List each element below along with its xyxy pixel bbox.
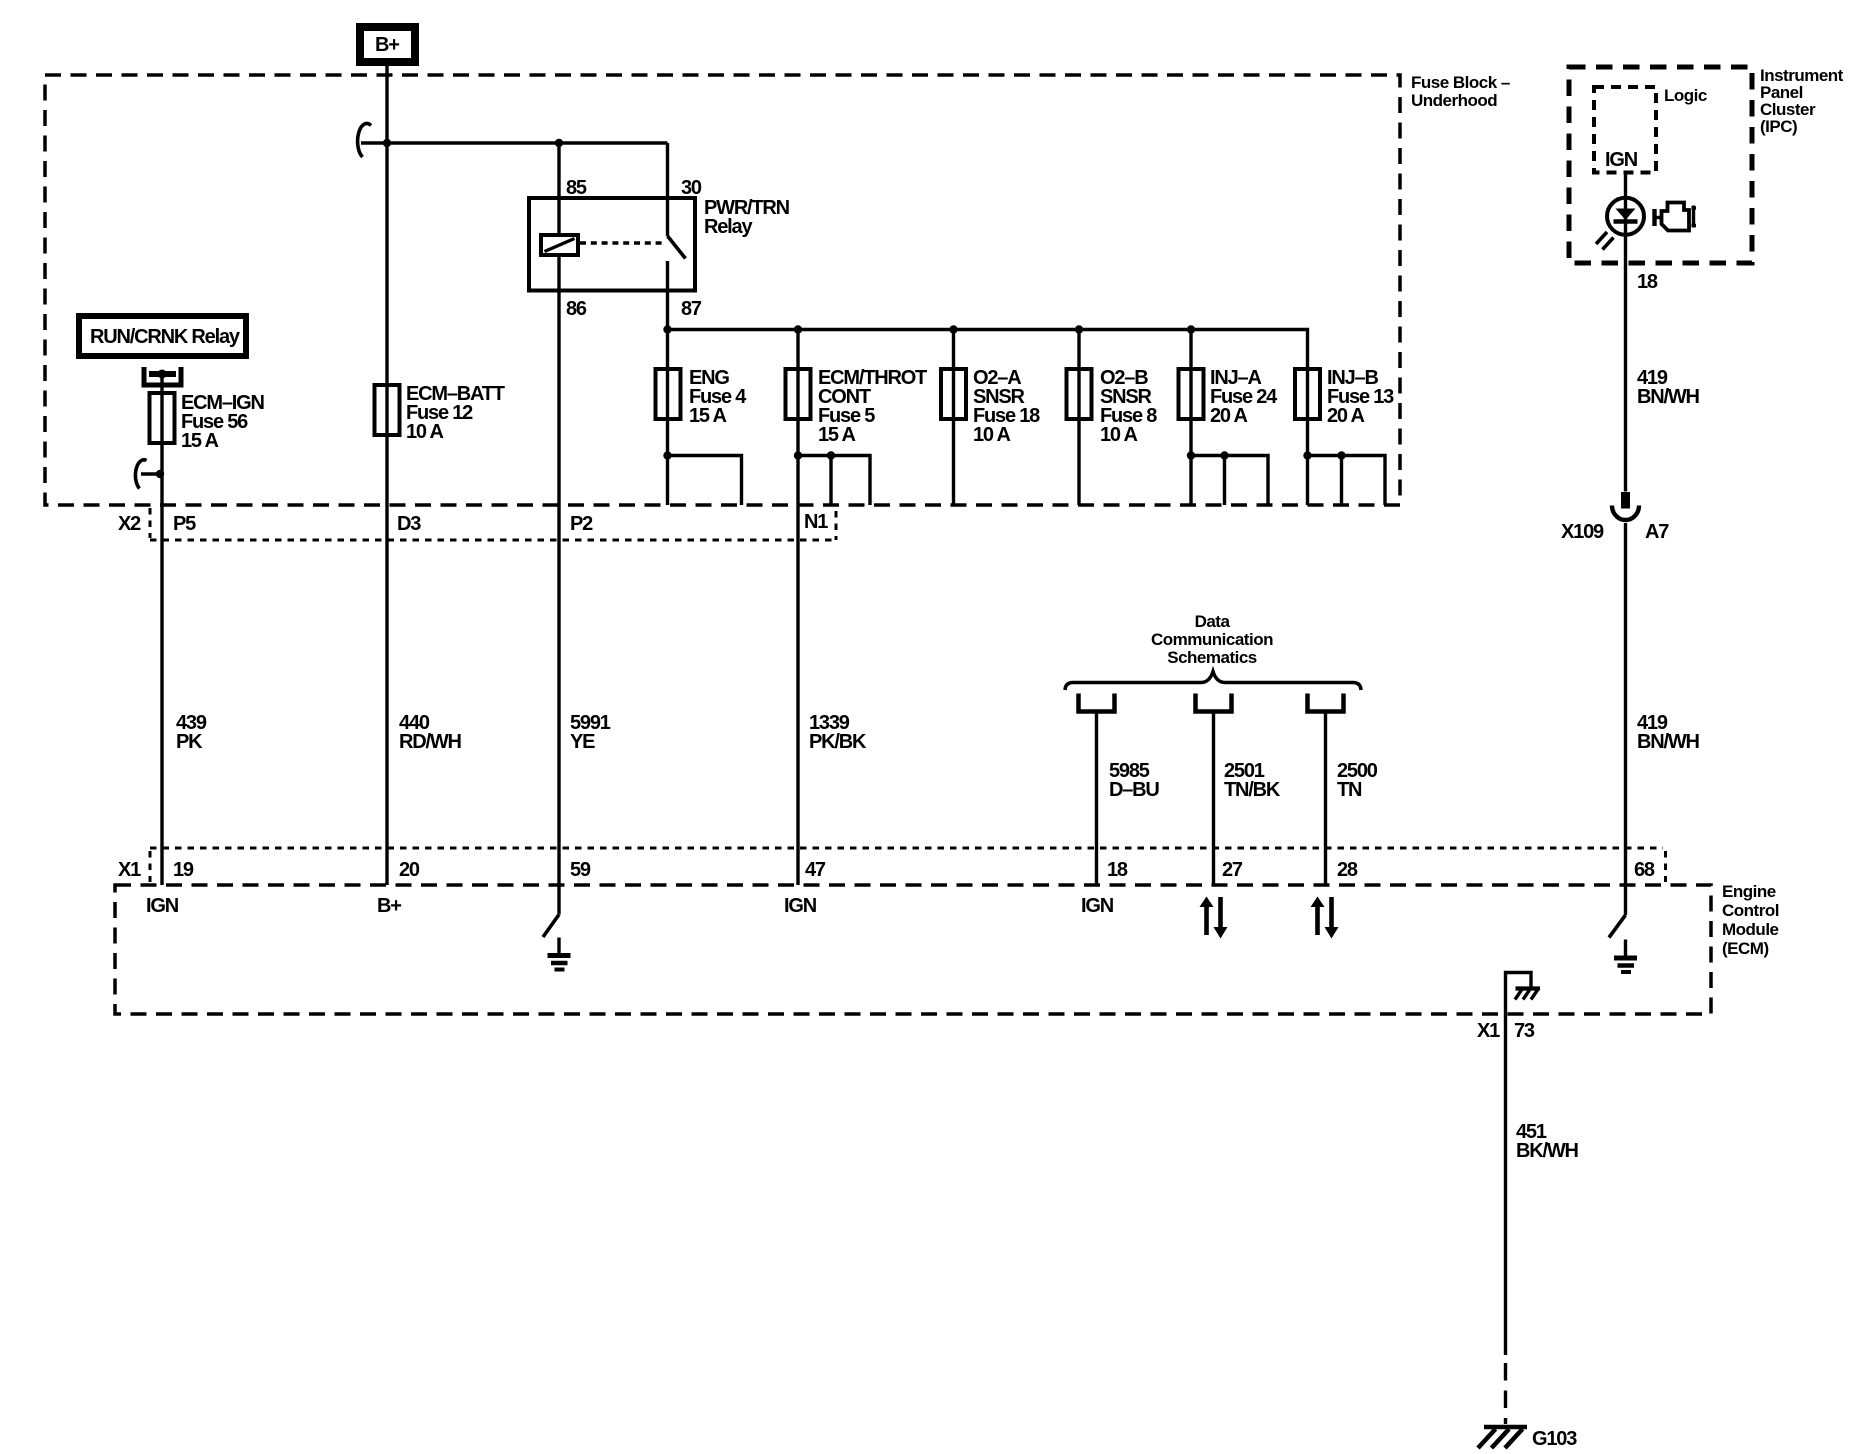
- connector terminal cup from RUN/CRNK relay: [144, 367, 181, 385]
- svg-text:85: 85: [566, 177, 587, 199]
- switch ECM driver pin 68: [1609, 915, 1626, 938]
- svg-text:87: 87: [681, 298, 702, 320]
- svg-text:Fuse Block –: Fuse Block –: [1411, 73, 1510, 92]
- wire 5985 D-BU: [1095, 712, 1098, 886]
- wire relay pin 30 drop: [666, 143, 669, 236]
- connector hook below fuse 56: [135, 460, 146, 489]
- wire relay pin 85 drop: [557, 143, 560, 236]
- fuse O2-A SNSR Fuse 18: [941, 369, 966, 419]
- svg-text:N1: N1: [804, 511, 828, 533]
- svg-text:X1: X1: [1477, 1020, 1500, 1042]
- connector row X1 dotted line: [150, 847, 1663, 850]
- svg-text:10 A: 10 A: [973, 424, 1010, 446]
- svg-text:P5: P5: [173, 513, 196, 535]
- switch ECM driver pin 59: [557, 885, 560, 915]
- svg-text:Underhood: Underhood: [1411, 91, 1497, 110]
- wire O2-A fuse output: [952, 419, 955, 505]
- svg-text:IGN: IGN: [146, 895, 179, 917]
- connector hook top feed: [358, 123, 371, 157]
- wire O2-B fuse output: [1077, 419, 1080, 505]
- svg-text:20: 20: [399, 859, 420, 881]
- svg-text:D3: D3: [397, 513, 421, 535]
- connector row X2 dotted line: [150, 539, 837, 542]
- indicator lamp MIL: [1596, 198, 1644, 250]
- fuse ENG Fuse 4: [656, 369, 681, 419]
- RUN/CRNK Relay label box: [76, 313, 249, 359]
- relay contact stub 87: [666, 261, 669, 291]
- svg-text:BN/WH: BN/WH: [1637, 731, 1700, 753]
- fuse bus horizontal: [668, 330, 1308, 370]
- svg-text:IGN: IGN: [1081, 895, 1114, 917]
- ground ECM pin 68: [1614, 940, 1637, 973]
- relay coil-contact dashed link: [580, 241, 664, 244]
- relay coil: [541, 235, 578, 255]
- engine control module box: [115, 885, 1711, 1014]
- wire INJ-B fuse output loop: [1306, 419, 1309, 505]
- svg-text:15 A: 15 A: [818, 424, 855, 446]
- svg-text:73: 73: [1514, 1020, 1535, 1042]
- wire IGN to indicator: [1624, 173, 1627, 492]
- svg-text:(IPC): (IPC): [1760, 117, 1797, 136]
- svg-text:10 A: 10 A: [406, 421, 443, 443]
- svg-text:30: 30: [681, 177, 702, 199]
- svg-text:28: 28: [1337, 859, 1358, 881]
- wire 2501 TN/BK: [1212, 712, 1215, 886]
- svg-text:IGN: IGN: [1605, 149, 1638, 171]
- battery feed B+: [356, 23, 419, 66]
- connector N1 separator: [835, 511, 838, 540]
- svg-text:59: 59: [570, 859, 591, 881]
- svg-text:PK: PK: [176, 731, 203, 753]
- svg-text:(ECM): (ECM): [1722, 939, 1769, 958]
- svg-text:D–BU: D–BU: [1109, 779, 1159, 801]
- wire INJ-A fuse output loop: [1189, 419, 1192, 505]
- svg-text:TN: TN: [1337, 779, 1362, 801]
- svg-text:Engine: Engine: [1722, 882, 1776, 901]
- svg-text:20 A: 20 A: [1210, 405, 1247, 427]
- svg-text:X1: X1: [118, 859, 141, 881]
- svg-text:B+: B+: [375, 34, 399, 56]
- serial data arrows pin 28: [1311, 897, 1339, 939]
- wire ENG fuse output loop: [666, 419, 669, 505]
- inline connector X109: [1612, 492, 1639, 520]
- svg-text:Control: Control: [1722, 901, 1779, 920]
- svg-text:47: 47: [805, 859, 826, 881]
- svg-text:18: 18: [1107, 859, 1128, 881]
- connector X2 separator: [149, 508, 152, 538]
- node bus 87: [663, 325, 671, 333]
- svg-text:10 A: 10 A: [1100, 424, 1137, 446]
- svg-text:P2: P2: [570, 513, 593, 535]
- terminal bracket 2501: [1196, 694, 1232, 712]
- logic box: [1594, 87, 1656, 173]
- relay switch blade: [668, 236, 686, 259]
- svg-text:27: 27: [1222, 859, 1243, 881]
- instrument panel cluster box: [1569, 67, 1752, 263]
- ground G103: [1478, 1427, 1527, 1448]
- node bus o2-a: [949, 325, 957, 333]
- svg-text:15 A: 15 A: [181, 430, 218, 452]
- wire top feed horizontal: [361, 141, 668, 144]
- check engine icon: [1655, 203, 1697, 231]
- svg-text:PK/BK: PK/BK: [809, 731, 867, 753]
- wire 451 BK/WH: [1504, 1014, 1507, 1355]
- node junction coil feed: [555, 139, 563, 147]
- svg-text:20 A: 20 A: [1327, 405, 1364, 427]
- fuse ECM-BATT Fuse 12: [375, 385, 400, 435]
- terminal bracket 5985: [1079, 694, 1115, 712]
- node bus o2-b: [1075, 325, 1083, 333]
- svg-text:BN/WH: BN/WH: [1637, 386, 1700, 408]
- svg-text:Module: Module: [1722, 920, 1779, 939]
- svg-text:TN/BK: TN/BK: [1224, 779, 1281, 801]
- svg-text:15 A: 15 A: [689, 405, 726, 427]
- connector 68 separator: [1664, 851, 1667, 882]
- svg-text:Logic: Logic: [1664, 86, 1707, 105]
- wire 5991 coil low side pin 86: [557, 255, 560, 885]
- ground ECM pin 59: [548, 938, 571, 970]
- svg-text:X2: X2: [118, 513, 141, 535]
- wire ECM-IGN feed: [160, 374, 163, 885]
- fuse block underhood box: [45, 75, 1400, 505]
- node bus inj-a: [1187, 325, 1195, 333]
- svg-text:YE: YE: [570, 731, 595, 753]
- svg-text:RUN/CRNK Relay: RUN/CRNK Relay: [90, 326, 241, 348]
- fuse ECM/THROT CONT Fuse 5: [786, 369, 811, 419]
- fuse ECM-IGN Fuse 56: [150, 393, 175, 443]
- connector X1 separator: [149, 851, 152, 882]
- fuse INJ-A Fuse 24: [1179, 369, 1204, 419]
- brace data communication: [1065, 672, 1361, 691]
- svg-text:68: 68: [1634, 859, 1655, 881]
- svg-text:18: 18: [1637, 271, 1658, 293]
- node terminal junction: [158, 370, 167, 379]
- svg-text:BK/WH: BK/WH: [1516, 1140, 1579, 1162]
- relay PWR/TRN box: [529, 198, 695, 291]
- svg-text:X109: X109: [1561, 521, 1604, 543]
- svg-text:Schematics: Schematics: [1167, 648, 1257, 667]
- svg-text:19: 19: [173, 859, 194, 881]
- svg-text:RD/WH: RD/WH: [399, 731, 462, 753]
- svg-text:IGN: IGN: [784, 895, 817, 917]
- fuse O2-B SNSR Fuse 8: [1067, 369, 1092, 419]
- serial data arrows pin 27: [1200, 897, 1228, 939]
- node junction B+/feed: [383, 139, 391, 147]
- svg-text:Communication: Communication: [1151, 630, 1273, 649]
- wire B+ vertical 440: [385, 66, 388, 885]
- fuse INJ-B Fuse 13: [1295, 369, 1320, 419]
- svg-text:86: 86: [566, 298, 587, 320]
- wire 2500 TN: [1324, 712, 1327, 886]
- svg-text:A7: A7: [1645, 521, 1669, 543]
- svg-text:Relay: Relay: [704, 216, 753, 238]
- svg-text:Data: Data: [1195, 612, 1231, 631]
- terminal bracket 2500: [1308, 694, 1344, 712]
- svg-text:G103: G103: [1532, 1428, 1577, 1450]
- svg-text:B+: B+: [377, 895, 401, 917]
- wire ECM/THROT fuse output loop + 1339 feed: [796, 419, 799, 885]
- chassis ground ECM pin 73: [1506, 973, 1541, 1015]
- node bus ecm/throt: [794, 325, 802, 333]
- wire 419 into ECM pin 68: [1624, 523, 1627, 915]
- node hook junction: [156, 470, 164, 478]
- wire pin 87 to fuse bus: [666, 291, 669, 370]
